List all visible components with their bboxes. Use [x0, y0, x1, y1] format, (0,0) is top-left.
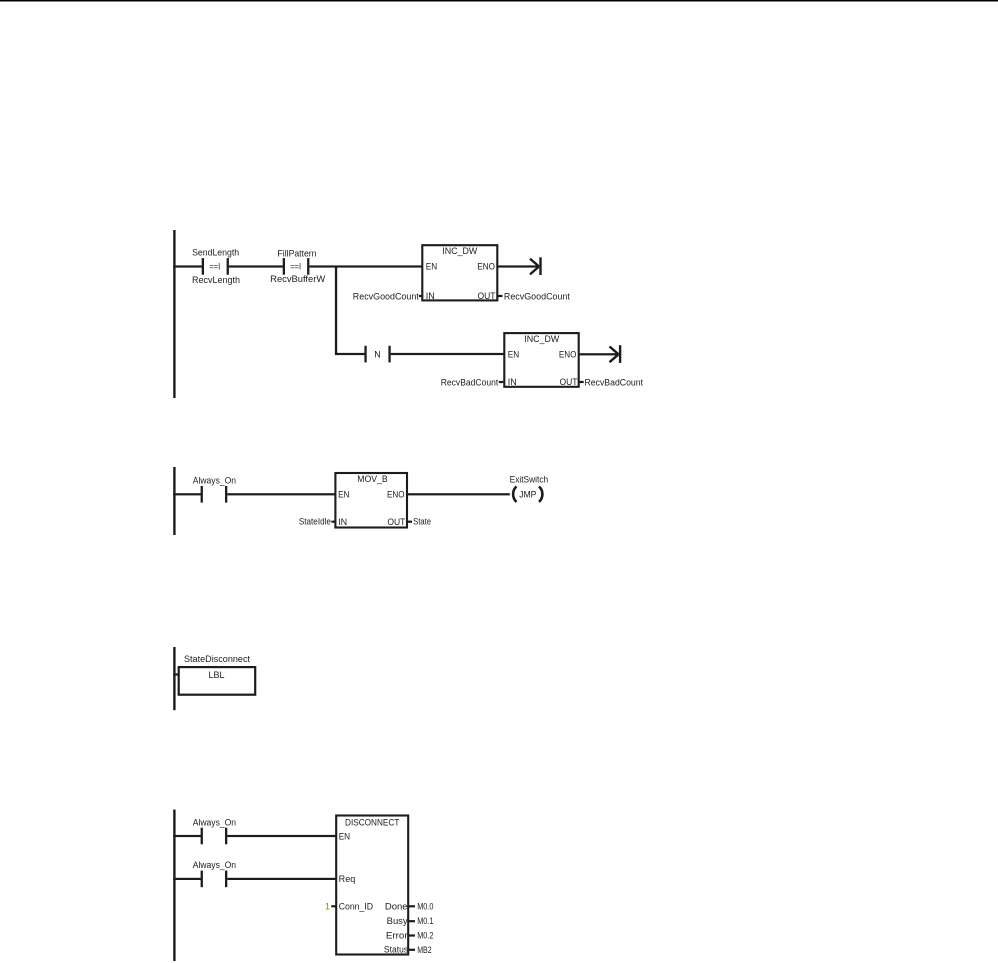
- svg-text:RecvBufferW: RecvBufferW: [270, 274, 326, 284]
- svg-text:IN: IN: [508, 377, 517, 387]
- left power rail network 2: [173, 467, 175, 535]
- svg-text:RecvBadCount: RecvBadCount: [441, 377, 499, 387]
- svg-text:Error: Error: [386, 931, 408, 941]
- svg-text:Always_On: Always_On: [193, 817, 236, 827]
- svg-text:INC_DW: INC_DW: [442, 246, 477, 256]
- svg-text:ENO: ENO: [387, 489, 405, 499]
- wire rail to contact Always_On (Req row): [173, 878, 202, 880]
- left power rail network 1: [173, 230, 175, 398]
- svg-text:IN: IN: [338, 517, 347, 527]
- svg-text:M0.1: M0.1: [417, 916, 433, 926]
- pin value M0.2 (Error): [408, 931, 433, 941]
- svg-text:RecvBadCount: RecvBadCount: [585, 377, 644, 387]
- wire contact to box Req pin: [227, 878, 336, 880]
- contact Always_On (network 2): [201, 486, 228, 503]
- wire rail to contact Always_On: [173, 493, 202, 495]
- function block INC_DW U1: [422, 245, 497, 301]
- function block DISCONNECT U4: [336, 816, 408, 955]
- svg-text:FillPattern: FillPattern: [278, 248, 317, 258]
- svg-text:M0.2: M0.2: [417, 931, 433, 941]
- junction vertical branch wire: [335, 266, 337, 355]
- wire ENO to arrow (network 1 row 1): [497, 265, 539, 267]
- svg-text:Busy: Busy: [387, 916, 408, 926]
- svg-text:ENO: ENO: [559, 350, 577, 360]
- svg-text:Always_On: Always_On: [193, 475, 236, 485]
- coil JMP ExitSwitch: [513, 486, 542, 502]
- svg-text:EN: EN: [508, 350, 519, 360]
- svg-text:==I: ==I: [209, 262, 220, 272]
- pin value M0.0 (Done): [408, 901, 433, 911]
- svg-text:==I: ==I: [290, 262, 301, 272]
- wire contact to box EN pin: [227, 835, 336, 837]
- svg-text:Status: Status: [384, 945, 409, 955]
- svg-text:EN: EN: [426, 262, 437, 272]
- left power rail network 4: [173, 810, 175, 962]
- wire N contact to box INC_DW 2: [391, 353, 505, 355]
- svg-text:DISCONNECT: DISCONNECT: [345, 817, 400, 827]
- open arrow terminator row 2: [610, 345, 622, 363]
- wire contact2 to box INC_DW 1: [309, 265, 423, 267]
- wire ENO to arrow (network 1 row 2): [579, 353, 619, 355]
- svg-text:INC_DW: INC_DW: [524, 334, 559, 344]
- svg-text:EN: EN: [339, 831, 350, 841]
- svg-text:StateIdle: StateIdle: [299, 516, 331, 526]
- svg-text:RecvGoodCount: RecvGoodCount: [353, 291, 419, 301]
- svg-text:Conn_ID: Conn_ID: [339, 901, 374, 911]
- svg-text:M0.0: M0.0: [417, 901, 433, 911]
- svg-text:N: N: [374, 350, 381, 360]
- contact Always_On (EN row): [201, 828, 228, 845]
- function block INC_DW U2: [504, 333, 578, 387]
- svg-text:1: 1: [325, 901, 330, 911]
- contact Always_On (Req row): [201, 871, 228, 888]
- svg-text:IN: IN: [426, 291, 435, 301]
- svg-text:LBL: LBL: [209, 670, 225, 680]
- branch horizontal wire to N contact: [335, 353, 366, 355]
- stub wire rail to LBL box: [173, 673, 179, 675]
- pin value MB2 (Status): [408, 945, 431, 955]
- contact N (negative transition): [364, 346, 390, 363]
- open arrow terminator row 1: [530, 257, 542, 275]
- svg-text:ENO: ENO: [477, 262, 495, 272]
- wire contact to box MOV_B: [227, 493, 335, 495]
- svg-text:OUT: OUT: [387, 517, 405, 527]
- pin value StateIdle (IN, left): [299, 516, 336, 526]
- svg-text:Done: Done: [385, 901, 408, 911]
- pin value State (OUT, right): [407, 517, 431, 527]
- function block MOV_B U3: [335, 473, 407, 528]
- label box LBL: [179, 667, 256, 695]
- contact ==I SendLength/RecvLength: [202, 258, 229, 275]
- top border line: [0, 0, 998, 2]
- svg-text:Req: Req: [339, 874, 356, 884]
- svg-text:MB2: MB2: [417, 945, 431, 955]
- pin value RecvGoodCount (OUT, right): [497, 291, 570, 301]
- svg-text:StateDisconnect: StateDisconnect: [184, 654, 250, 664]
- svg-text:OUT: OUT: [560, 377, 578, 387]
- wire rail to contact Always_On (EN row): [173, 835, 202, 837]
- svg-text:Always_On: Always_On: [193, 860, 236, 870]
- pin value RecvGoodCount (IN, left): [353, 291, 423, 301]
- svg-text:State: State: [413, 517, 431, 527]
- pin value RecvBadCount (OUT, right): [579, 377, 644, 387]
- svg-text:ExitSwitch: ExitSwitch: [510, 475, 549, 485]
- wire ENO to JMP coil: [407, 493, 510, 495]
- svg-text:EN: EN: [338, 489, 349, 499]
- svg-text:SendLength: SendLength: [192, 248, 239, 258]
- contact ==I FillPattern/RecvBufferW: [283, 258, 310, 275]
- svg-text:JMP: JMP: [519, 489, 536, 499]
- wire contact1 to contact2: [229, 265, 283, 267]
- pin constant 1 (Conn_ID): [325, 901, 336, 911]
- svg-text:OUT: OUT: [478, 291, 496, 301]
- svg-text:MOV_B: MOV_B: [357, 474, 388, 484]
- svg-text:RecvGoodCount: RecvGoodCount: [504, 291, 570, 301]
- pin value M0.1 (Busy): [408, 916, 433, 926]
- svg-text:RecvLength: RecvLength: [192, 275, 240, 285]
- wire rail to contact1: [173, 265, 203, 267]
- pin value RecvBadCount (IN, left): [441, 377, 504, 387]
- left power rail network 3: [173, 647, 175, 710]
